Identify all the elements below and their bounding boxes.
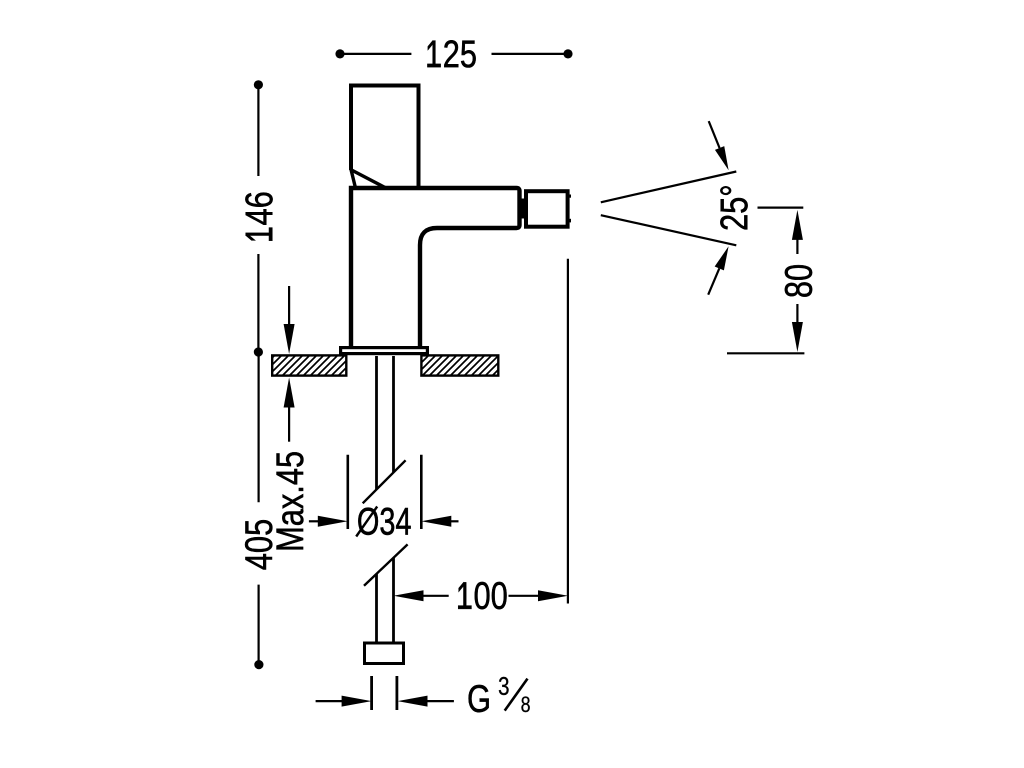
dimension D34 right arrow	[421, 516, 451, 527]
dimension 146 top dot	[254, 80, 263, 89]
text O34	[358, 508, 410, 535]
pipe break mark lower	[364, 544, 408, 585]
dimension Max.45 lower arrow	[284, 378, 295, 408]
dimension Max.45 upper arrow	[288, 286, 290, 326]
dimension 146/405 shared dot	[254, 347, 263, 356]
dimension D34 left extension line	[346, 455, 349, 529]
dimension 100 left arrow	[394, 590, 424, 601]
angle 25 lower arrow	[708, 268, 719, 294]
dimension 100 right arrow	[509, 595, 541, 597]
text 146	[245, 193, 272, 241]
dimension 80 bottom tick	[727, 352, 804, 354]
supply pipe right line	[392, 356, 395, 642]
handle notch lines	[351, 170, 385, 189]
dimension 125 right dot	[563, 49, 572, 58]
supply pipe left line	[375, 356, 378, 642]
text 125	[427, 40, 475, 67]
angle 25 lower line	[601, 215, 737, 245]
text 25deg	[720, 186, 747, 229]
dimension 125 left dot	[335, 49, 344, 58]
dimension G3/8 right arrow	[398, 696, 428, 707]
dimension 80 top tick	[758, 207, 804, 209]
dimension 80 upper arrow	[792, 210, 803, 240]
dimension G3/8 left extension line	[370, 676, 373, 710]
text G	[469, 685, 489, 712]
O34 diameter slash	[356, 507, 377, 537]
dimension 125 line	[340, 53, 568, 55]
base flange	[341, 348, 428, 354]
text Max.45	[277, 452, 304, 549]
text sup3	[499, 677, 509, 695]
text 100	[458, 582, 506, 609]
aerator tick bottom	[568, 219, 571, 223]
dimension D34 left arrow	[309, 520, 320, 522]
angle 25 upper line	[601, 172, 737, 203]
text 405	[245, 520, 272, 569]
label G 3/8 : fraction slash	[505, 679, 528, 711]
deck left slab	[272, 355, 346, 375]
dimension G3/8 right extension line	[395, 676, 398, 710]
faucet body outline	[351, 188, 520, 347]
pipe break mark upper	[363, 460, 406, 503]
connection nut	[365, 643, 404, 664]
aerator tick top	[568, 195, 571, 198]
deck right slab	[421, 355, 498, 375]
dimension G3/8 left arrow	[316, 700, 344, 702]
angle 25 upper arrow	[709, 121, 720, 148]
dimension D34 right extension line	[420, 455, 423, 529]
dimension 405 bottom dot	[254, 660, 263, 669]
dimension 100 right extension line	[567, 259, 569, 604]
text 80	[785, 265, 812, 297]
aerator connector	[520, 199, 527, 219]
dimension 80 lower arrow	[796, 304, 798, 324]
dimension 405 line	[258, 352, 260, 665]
text sub8	[521, 696, 529, 712]
faucet handle	[351, 86, 419, 189]
dimension 146 line	[257, 85, 259, 352]
aerator	[526, 191, 568, 227]
